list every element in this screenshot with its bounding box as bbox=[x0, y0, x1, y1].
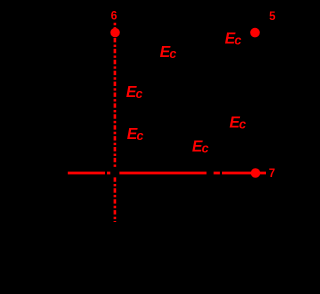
svg-text:6: 6 bbox=[111, 11, 117, 23]
svg-text:5: 5 bbox=[269, 11, 276, 23]
svg-text:Ec: Ec bbox=[160, 44, 177, 61]
svg-text:Ec: Ec bbox=[225, 30, 242, 47]
svg-text:Ec: Ec bbox=[126, 84, 143, 101]
svg-text:Ec: Ec bbox=[192, 139, 209, 156]
svg-text:7: 7 bbox=[269, 168, 275, 180]
svg-text:Ec: Ec bbox=[229, 115, 246, 132]
svg-text:Ec: Ec bbox=[127, 126, 144, 143]
